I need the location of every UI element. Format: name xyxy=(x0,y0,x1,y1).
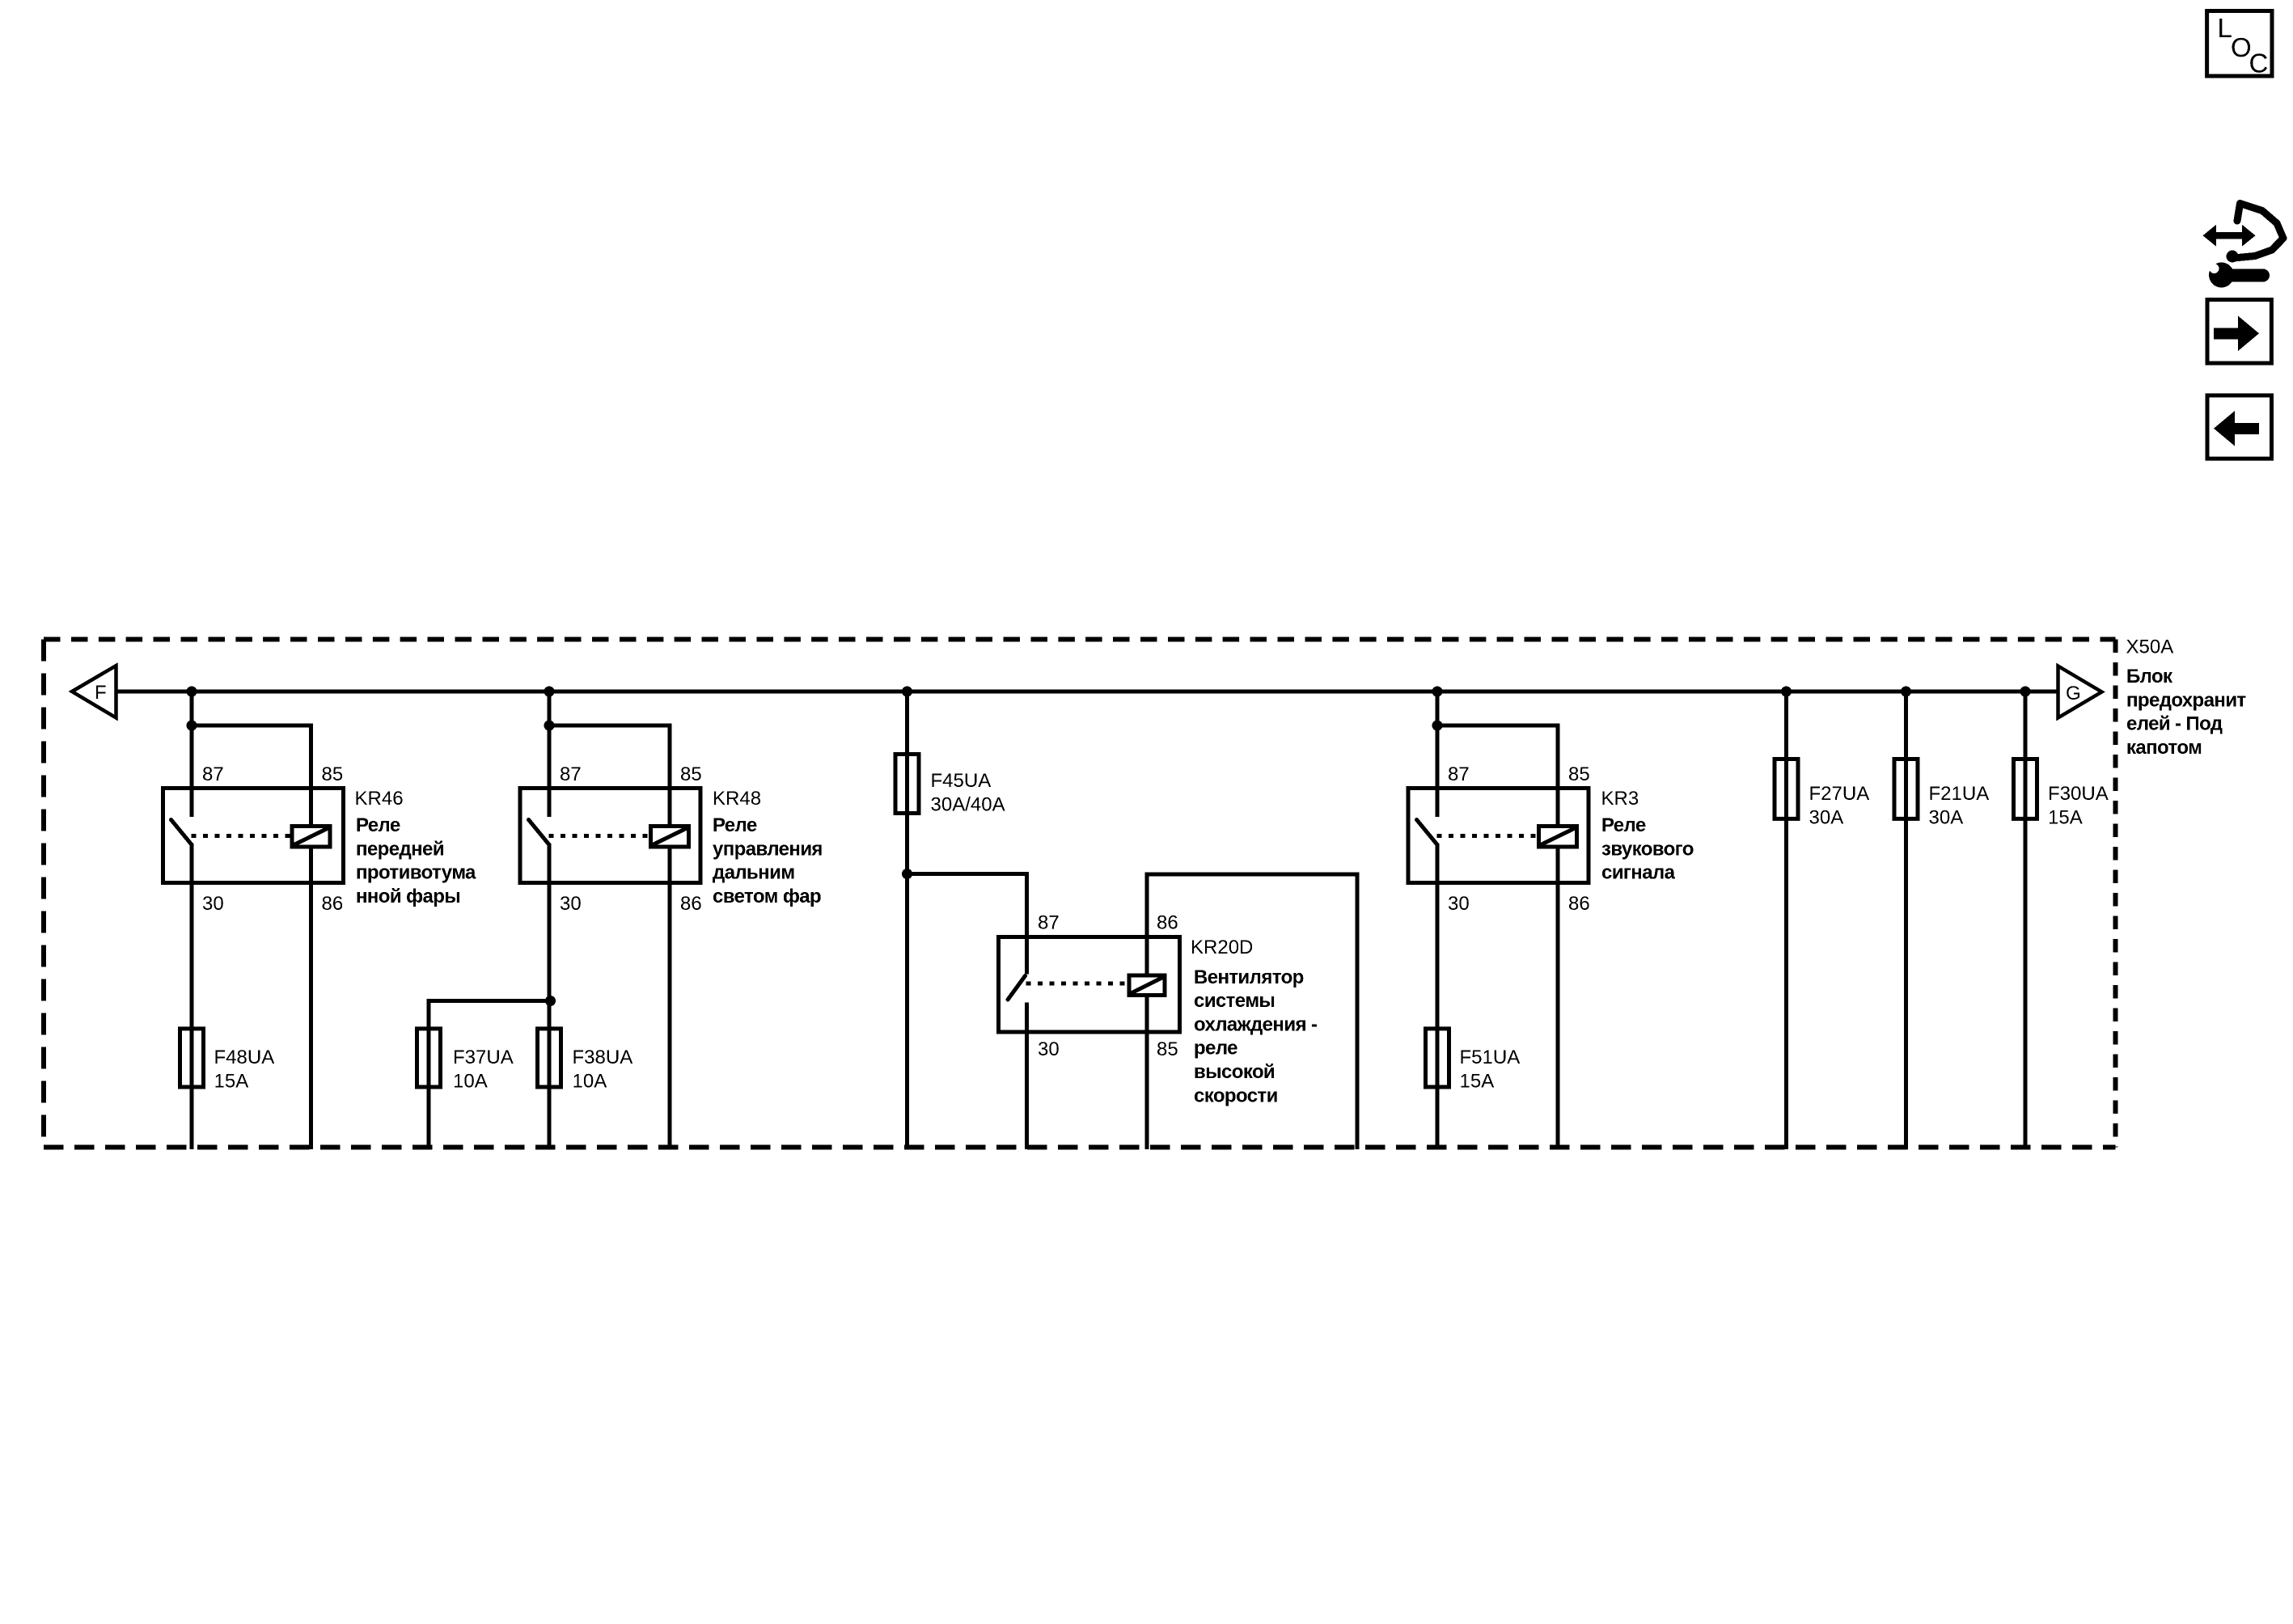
node junction dot KR48 bus xyxy=(544,687,555,697)
fuse F30UA 15A xyxy=(2013,759,2037,819)
wire KR3 pin 87 feed xyxy=(1436,691,1440,817)
wire F30UA feeder xyxy=(2024,691,2028,1149)
relay KR46 box xyxy=(163,789,344,883)
svg-text:86: 86 xyxy=(1157,912,1178,934)
icon back arrow box xyxy=(2207,395,2272,459)
relay KR48 coil link dotted xyxy=(549,834,651,838)
wire KR48 pin 30 through fuse F38UA xyxy=(548,844,552,1149)
wire F45UA feeder from bus to bottom xyxy=(905,691,909,1149)
label fuse F51UA value xyxy=(1460,1047,1521,1092)
svg-text:10A: 10A xyxy=(453,1070,488,1092)
wire main bus xyxy=(116,690,2058,694)
relay KR20D coil xyxy=(1129,975,1165,996)
icon hotlink double arrow xyxy=(2203,225,2256,247)
wire KR3 branch to pin 85 xyxy=(1437,725,1558,827)
svg-text:противотума: противотума xyxy=(356,862,476,884)
node junction dot KR46 branch xyxy=(187,721,197,731)
svg-text:предохранит: предохранит xyxy=(2126,689,2246,711)
svg-text:86: 86 xyxy=(680,893,702,915)
label fuse F30UA value xyxy=(2048,783,2109,828)
wire KR46 branch to pin 85 xyxy=(192,725,311,827)
relay KR20D switch blade xyxy=(1008,976,1026,1000)
node junction dot KR48 fuse branch xyxy=(545,996,556,1006)
relay KR3 box xyxy=(1408,789,1589,883)
wire KR46 pin 87 feed xyxy=(190,691,194,817)
svg-text:KR46: KR46 xyxy=(355,788,404,810)
relay KR3 switch blade xyxy=(1417,820,1438,845)
svg-text:передней: передней xyxy=(356,838,444,860)
svg-text:KR3: KR3 xyxy=(1601,788,1639,810)
wire F27UA feeder xyxy=(1784,691,1788,1149)
relay KR48 coil xyxy=(651,827,689,848)
relay KR20D coil link dotted xyxy=(1026,982,1130,986)
svg-text:85: 85 xyxy=(1568,763,1590,785)
svg-text:системы: системы xyxy=(1194,990,1275,1012)
svg-text:Реле: Реле xyxy=(1601,814,1646,836)
svg-text:10A: 10A xyxy=(573,1070,607,1092)
label fuse F48UA value xyxy=(214,1047,275,1092)
svg-text:87: 87 xyxy=(1038,912,1060,934)
node G arrow (page reference G) xyxy=(2058,666,2102,718)
connector X50A dashed boundary box xyxy=(44,640,2116,1148)
svg-text:высокой: высокой xyxy=(1194,1061,1275,1083)
wire KR20D pin 86 loop to bottom xyxy=(1147,874,1357,1149)
icon forward arrow box xyxy=(2207,300,2271,364)
fuse F48UA 15A xyxy=(180,1029,203,1087)
svg-text:X50A: X50A xyxy=(2126,636,2174,658)
wire KR48 pin 87 feed xyxy=(548,691,552,817)
svg-text:15A: 15A xyxy=(2048,806,2083,828)
fuse F51UA 15A xyxy=(1425,1029,1449,1087)
svg-text:86: 86 xyxy=(1568,893,1590,915)
svg-text:светом фар: светом фар xyxy=(713,886,821,907)
svg-text:85: 85 xyxy=(1157,1038,1178,1060)
node junction dot F30UA bus xyxy=(2020,687,2031,697)
icon hotlink hook arrow xyxy=(2227,204,2284,263)
wire KR20D pin 85 run xyxy=(1145,995,1149,1149)
svg-text:сигнала: сигнала xyxy=(1601,862,1676,884)
svg-text:85: 85 xyxy=(322,763,344,785)
svg-text:G: G xyxy=(2066,683,2081,704)
svg-text:30A: 30A xyxy=(1929,806,1964,828)
label fuse F38UA value xyxy=(573,1047,633,1092)
svg-text:30: 30 xyxy=(202,893,224,915)
svg-text:C: C xyxy=(2249,49,2269,78)
svg-text:F21UA: F21UA xyxy=(1929,783,1990,805)
svg-text:реле: реле xyxy=(1194,1038,1237,1059)
wire F21UA feeder xyxy=(1904,691,1908,1149)
wire KR46 pin 85/86 coil lower run xyxy=(309,847,313,1149)
node junction dot F45UA bus xyxy=(902,687,912,697)
relay KR20D box xyxy=(999,937,1180,1033)
node junction dot KR3 branch xyxy=(1432,721,1443,731)
svg-text:F37UA: F37UA xyxy=(453,1047,514,1068)
relay KR48 switch blade xyxy=(529,820,550,845)
svg-text:F45UA: F45UA xyxy=(931,770,992,792)
node junction dot KR48 branch xyxy=(544,721,555,731)
svg-text:87: 87 xyxy=(560,763,582,785)
svg-text:87: 87 xyxy=(1448,763,1470,785)
node junction dot KR20D branch xyxy=(902,869,912,879)
wire KR48 branch to fuse F37UA xyxy=(429,1001,551,1150)
svg-text:елей - Под: елей - Под xyxy=(2126,713,2223,735)
label KR3 description xyxy=(1601,814,1694,884)
svg-text:86: 86 xyxy=(322,893,344,915)
node junction dot F27UA bus xyxy=(1781,687,1792,697)
svg-text:KR20D: KR20D xyxy=(1191,937,1253,958)
fuse F38UA 10A xyxy=(537,1029,561,1087)
wire branch to KR20D pin 87 xyxy=(907,874,1027,975)
label fuse F27UA value xyxy=(1809,783,1870,828)
relay KR3 coil xyxy=(1539,827,1577,848)
icon hotlink wrench xyxy=(2209,263,2270,288)
icon LOC box xyxy=(2207,11,2272,78)
svg-text:Реле: Реле xyxy=(713,814,757,836)
svg-text:F27UA: F27UA xyxy=(1809,783,1870,805)
relay KR48 box xyxy=(520,789,700,883)
wire KR3 pin 85/86 coil lower run xyxy=(1556,847,1560,1149)
label fuse F37UA value xyxy=(453,1047,514,1092)
fuse F45UA 30A/40A xyxy=(895,755,919,814)
svg-text:30: 30 xyxy=(1448,893,1470,915)
wire KR46 pin 30 through fuse F48UA xyxy=(190,844,194,1149)
svg-text:30: 30 xyxy=(560,893,582,915)
svg-text:Блок: Блок xyxy=(2126,666,2173,687)
label KR20D description xyxy=(1194,966,1318,1107)
relay KR3 coil link dotted xyxy=(1437,834,1539,838)
svg-text:15A: 15A xyxy=(214,1070,249,1092)
svg-text:F48UA: F48UA xyxy=(214,1047,275,1068)
node F arrow (page reference F) xyxy=(72,666,116,718)
relay KR46 coil link dotted xyxy=(192,834,293,838)
svg-text:управления: управления xyxy=(713,838,823,860)
svg-text:F30UA: F30UA xyxy=(2048,783,2109,805)
svg-text:85: 85 xyxy=(680,763,702,785)
svg-text:охлаждения -: охлаждения - xyxy=(1194,1013,1318,1035)
fuse F27UA 30A xyxy=(1775,759,1798,819)
label fuse F21UA value xyxy=(1929,783,1990,828)
svg-text:капотом: капотом xyxy=(2126,737,2202,759)
label fuse F45UA value xyxy=(931,770,1005,815)
svg-text:F: F xyxy=(95,682,107,704)
wire KR48 branch to pin 85 xyxy=(549,725,670,827)
relay KR46 switch blade xyxy=(171,820,192,845)
node junction dot F21UA bus xyxy=(1901,687,1911,697)
svg-text:F38UA: F38UA xyxy=(573,1047,633,1068)
svg-text:30A: 30A xyxy=(1809,806,1844,828)
relay KR46 coil xyxy=(292,827,330,848)
svg-text:F51UA: F51UA xyxy=(1460,1047,1521,1068)
svg-text:KR48: KR48 xyxy=(713,788,761,810)
svg-text:30: 30 xyxy=(1038,1038,1060,1060)
svg-text:15A: 15A xyxy=(1460,1070,1495,1092)
svg-text:Реле: Реле xyxy=(356,814,400,836)
label X50A description xyxy=(2126,666,2246,759)
svg-text:87: 87 xyxy=(202,763,224,785)
svg-text:Вентилятор: Вентилятор xyxy=(1194,966,1304,988)
wire KR20D pin 30 run xyxy=(1025,1003,1029,1150)
node junction dot KR3 bus xyxy=(1432,687,1443,697)
svg-text:звукового: звукового xyxy=(1601,838,1694,860)
label KR48 description xyxy=(713,814,823,907)
fuse F21UA 30A xyxy=(1894,759,1918,819)
fuse F37UA 10A xyxy=(417,1029,440,1087)
wire KR48 pin 85/86 coil lower run xyxy=(668,847,672,1149)
label KR46 description xyxy=(356,814,476,907)
node junction dot KR46 bus xyxy=(187,687,197,697)
wire KR3 pin 30 through fuse F51UA xyxy=(1436,844,1440,1149)
svg-text:30A/40A: 30A/40A xyxy=(931,793,1005,815)
svg-text:нной фары: нной фары xyxy=(356,886,460,907)
svg-text:скорости: скорости xyxy=(1194,1085,1278,1106)
svg-text:дальним: дальним xyxy=(713,862,794,884)
